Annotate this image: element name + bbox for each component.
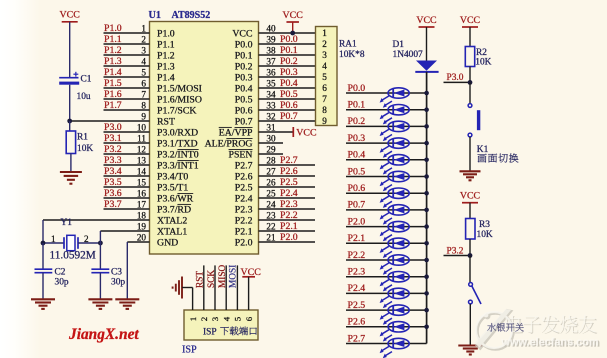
svg-text:P2.2: P2.2 [348, 250, 366, 261]
svg-text:C3: C3 [111, 268, 122, 278]
svg-text:P1.1: P1.1 [157, 39, 175, 50]
svg-text:9: 9 [322, 116, 327, 126]
LED P2.2 symbol [388, 255, 409, 265]
wire P2.7 to LED [346, 343, 427, 345]
svg-text:P2.3: P2.3 [235, 204, 253, 215]
svg-text:P2.4: P2.4 [235, 193, 253, 204]
U1 pin 22 stub and pin number [259, 230, 316, 232]
svg-text:www.elecfans.com: www.elecfans.com [501, 336, 599, 348]
svg-text:10K: 10K [77, 144, 93, 154]
ground symbol (K1) [460, 170, 481, 172]
svg-text:P0.6: P0.6 [280, 100, 298, 111]
svg-text:P2.1: P2.1 [348, 233, 366, 244]
svg-text:P3.5: P3.5 [104, 177, 122, 188]
wire crystal to XTAL1 node [78, 242, 100, 244]
LED P2.0 symbol [388, 221, 409, 231]
wire ISP ground to pin1 [182, 287, 193, 289]
wire C3 to ground [99, 273, 101, 299]
junction node bus row P2.2 [424, 258, 429, 263]
U1 pin 20 stub and pin number [127, 241, 149, 243]
wire P0.4 to LED [346, 159, 427, 161]
resistor R3 symbol [466, 219, 475, 240]
U1 pin 40 stub and pin number [259, 32, 316, 34]
svg-text:U1: U1 [149, 10, 161, 21]
wire ISP VCC stem [248, 277, 250, 310]
svg-text:P2.5: P2.5 [280, 177, 298, 188]
wire ISP pin5 [236, 265, 238, 310]
svg-text:P0.5: P0.5 [235, 94, 253, 105]
svg-text:P2.6: P2.6 [280, 166, 298, 177]
U1 pin 29 stub and pin number [259, 153, 284, 155]
U1 pin 14 stub and pin number [104, 175, 150, 177]
svg-text:P0.5: P0.5 [348, 166, 366, 177]
junction node bus row P2.1 [424, 241, 429, 246]
svg-text:P3.3/INT1: P3.3/INT1 [157, 160, 199, 171]
svg-text:P0.6: P0.6 [235, 105, 253, 116]
svg-text:32: 32 [266, 111, 276, 121]
svg-text:P0.2: P0.2 [235, 61, 253, 72]
svg-text:4: 4 [221, 316, 231, 321]
power VCC symbol (reset circuit) [62, 21, 78, 23]
IC U1 AT89S52 body [150, 22, 259, 255]
resistor R1 symbol [66, 131, 75, 154]
svg-text:P2.2: P2.2 [280, 210, 298, 221]
svg-text:K1: K1 [477, 145, 489, 155]
junction node P3.0/K1 [468, 80, 473, 85]
U1 pin 37 stub and pin number [259, 65, 316, 67]
LED P0.7 symbol [388, 205, 409, 215]
junction node bus row P0.4 [424, 158, 429, 163]
U1 pin 11 stub and pin number [104, 142, 150, 144]
wire C3 stem [99, 243, 101, 269]
U1 pin 15 stub and pin number [104, 186, 150, 188]
svg-text:P2.1: P2.1 [235, 226, 253, 237]
svg-text:P3.0/RXD: P3.0/RXD [157, 127, 198, 138]
svg-text:6: 6 [141, 78, 146, 88]
wire R1 to ground [70, 154, 72, 172]
LED P2.6 symbol [388, 322, 409, 332]
U1 pin 26 stub and pin number [259, 186, 316, 188]
svg-text:14: 14 [137, 166, 147, 176]
svg-text:34: 34 [266, 89, 276, 99]
wire P2.6 to LED [346, 326, 427, 328]
svg-text:10K: 10K [477, 230, 493, 240]
svg-text:6: 6 [244, 316, 254, 321]
svg-text:P0.3: P0.3 [348, 133, 366, 144]
U1 pin 30 stub and pin number [259, 142, 284, 144]
U1 pin 17 stub and pin number [104, 208, 150, 210]
U1 pin 32 stub and pin number [259, 120, 316, 122]
junction node RST/R1/C1 [67, 119, 72, 124]
svg-text:P1.6: P1.6 [104, 89, 122, 100]
svg-text:P3.2: P3.2 [104, 144, 122, 155]
svg-text:5: 5 [233, 316, 243, 321]
LED P0.5 symbol [388, 171, 409, 181]
svg-text:P1.2: P1.2 [104, 45, 122, 56]
svg-text:P0.1: P0.1 [235, 50, 253, 61]
svg-text:ALE/PROG: ALE/PROG [205, 138, 253, 149]
svg-text:22: 22 [266, 221, 276, 231]
wire R3 to P3.2 node [469, 239, 471, 256]
svg-text:26: 26 [266, 177, 276, 187]
svg-text:9: 9 [141, 111, 146, 121]
svg-text:8: 8 [141, 100, 146, 110]
svg-text:6: 6 [322, 83, 327, 93]
svg-text:P1.4: P1.4 [157, 72, 175, 83]
junction node bus row P0.7 [424, 208, 429, 213]
junction node bus row P2.6 [424, 325, 429, 330]
svg-text:P0.1: P0.1 [348, 100, 366, 111]
svg-text:15: 15 [137, 177, 147, 187]
wire net stub P3.2 [444, 255, 471, 257]
ground symbol (C3) [88, 298, 112, 300]
svg-text:10K: 10K [475, 58, 491, 68]
U1 pin 19 stub and pin number [100, 230, 149, 232]
ground symbol (C2) [31, 298, 55, 300]
svg-text:P3.5/T1: P3.5/T1 [157, 182, 188, 193]
svg-text:P0.4: P0.4 [280, 78, 298, 89]
power VCC symbol (EA/VPP pin, sideways) [292, 127, 294, 137]
wire P2.5 to LED [346, 309, 427, 311]
wire P2.0 to LED [346, 226, 427, 228]
svg-text:20: 20 [137, 232, 147, 242]
svg-text:P3.4/T0: P3.4/T0 [157, 171, 188, 182]
junction node bus row P0.1 [424, 107, 429, 112]
svg-text:P1.3: P1.3 [157, 61, 175, 72]
svg-text:P1.0: P1.0 [104, 23, 122, 34]
switch K2 (tilt switch) symbol [469, 283, 473, 287]
U1 pin 33 stub and pin number [259, 109, 316, 111]
svg-text:P0.7: P0.7 [348, 200, 366, 211]
U1 pin 25 stub and pin number [259, 197, 316, 199]
resistor R2 symbol [465, 47, 474, 67]
svg-text:C1: C1 [81, 75, 92, 85]
svg-text:38: 38 [266, 45, 276, 55]
svg-text:P2.7: P2.7 [235, 160, 253, 171]
resistor network RA1 body [316, 27, 338, 126]
U1 pin 21 stub and pin number [259, 241, 316, 243]
svg-text:P2.7: P2.7 [280, 155, 298, 166]
svg-text:XTAL2: XTAL2 [157, 215, 187, 226]
LED P0.0 symbol [388, 88, 409, 98]
svg-text:23: 23 [266, 210, 276, 220]
svg-text:P2.5: P2.5 [235, 182, 253, 193]
svg-text:C2: C2 [55, 268, 66, 278]
capacitor C3 symbol [91, 268, 109, 270]
svg-text:24: 24 [266, 199, 276, 209]
LED P2.4 symbol [388, 288, 409, 298]
svg-text:35: 35 [266, 78, 276, 88]
junction node bus row P0.6 [424, 191, 429, 196]
svg-text:P2.3: P2.3 [280, 199, 298, 210]
svg-text:30p: 30p [55, 278, 69, 288]
wire R2 to P3.0 node [469, 67, 471, 83]
svg-text:P0.6: P0.6 [348, 183, 366, 194]
ground symbol (ISP, rotated) [181, 277, 183, 299]
svg-text:Y1: Y1 [61, 218, 73, 228]
junction node bus row P2.5 [424, 308, 429, 313]
svg-text:JiangX.net: JiangX.net [68, 326, 139, 343]
svg-text:1: 1 [322, 28, 327, 38]
svg-text:R3: R3 [479, 220, 490, 230]
wire XTAL1 route [99, 231, 101, 243]
wire P2.4 to LED [346, 292, 427, 294]
svg-text:VCC: VCC [241, 267, 262, 278]
wire ISP pin4 (MOSI) [225, 265, 227, 310]
svg-text:GND: GND [157, 237, 178, 248]
svg-text:VCC: VCC [232, 28, 252, 39]
svg-text:1: 1 [141, 23, 146, 33]
svg-text:1: 1 [51, 234, 56, 244]
label 画面切换 (screen switch) [477, 154, 486, 163]
ground symbol (reset circuit) [60, 171, 82, 173]
svg-text:AT89S52: AT89S52 [172, 10, 211, 21]
U1 pin 18 stub and pin number [43, 219, 150, 221]
U1 pin 8 stub and pin number [104, 109, 150, 111]
svg-text:P0.3: P0.3 [235, 72, 253, 83]
svg-text:8: 8 [322, 105, 327, 115]
svg-text:RST: RST [195, 271, 205, 288]
svg-text:P3.1/TXD: P3.1/TXD [157, 138, 198, 149]
U1 pin 36 stub and pin number [259, 76, 316, 78]
wire P0.1 to LED [346, 109, 427, 111]
wire P2.1 to LED [346, 242, 427, 244]
U1 pin 7 stub and pin number [104, 98, 150, 100]
svg-text:XTAL1: XTAL1 [157, 226, 187, 237]
wire node to K2 [469, 256, 471, 283]
wire VCC to R3 [469, 203, 471, 219]
svg-text:RST: RST [157, 116, 175, 127]
U1 pin 39 stub and pin number [259, 43, 316, 45]
svg-text:VCC: VCC [460, 15, 481, 26]
svg-text:ISP: ISP [182, 344, 197, 355]
wire VCC to C1 [69, 22, 71, 77]
svg-text:1N4007: 1N4007 [393, 50, 424, 60]
svg-text:39: 39 [266, 34, 276, 44]
svg-text:33: 33 [266, 100, 276, 110]
svg-text:17: 17 [137, 199, 147, 209]
wire crystal row [43, 242, 64, 244]
svg-text:36: 36 [266, 67, 276, 77]
wire P0.7 to LED [346, 209, 427, 211]
U1 pin 23 stub and pin number [259, 219, 316, 221]
capacitor C2 symbol [35, 268, 53, 270]
svg-text:10K*8: 10K*8 [339, 50, 365, 60]
svg-text:P3.7: P3.7 [104, 199, 122, 210]
svg-text:P3.4: P3.4 [104, 166, 122, 177]
crystal Y1 symbol [63, 237, 65, 249]
junction node XTAL1/C3 [98, 241, 103, 246]
junction node bus row P0.0 [424, 91, 429, 96]
svg-text:P3.0: P3.0 [104, 122, 122, 133]
ground symbol (U1 GND pin) [115, 298, 139, 300]
svg-text:19: 19 [137, 221, 147, 231]
wire VCC to D1 anode [426, 27, 428, 61]
svg-text:VCC: VCC [296, 128, 317, 139]
svg-text:40: 40 [266, 23, 276, 33]
svg-text:4: 4 [322, 61, 327, 71]
U1 pin 5 stub and pin number [104, 76, 150, 78]
U1 pin 24 stub and pin number [259, 208, 316, 210]
junction node bus row P0.3 [424, 141, 429, 146]
svg-text:ISP: ISP [203, 328, 217, 338]
junction node P3.2/K2 [468, 253, 473, 258]
svg-text:VCC: VCC [416, 15, 437, 26]
wire P0.3 to LED [346, 142, 427, 144]
U1 pin 2 stub and pin number [104, 43, 150, 45]
wire C2 to ground [42, 273, 44, 299]
U1 pin 12 stub and pin number [104, 153, 150, 155]
wire node to R1 [69, 121, 71, 131]
svg-text:P3.7/RD: P3.7/RD [157, 204, 191, 215]
svg-text:P2.6: P2.6 [348, 317, 366, 328]
svg-text:EA/VPP: EA/VPP [219, 127, 253, 138]
U1 pin 4 stub and pin number [104, 65, 150, 67]
svg-text:16: 16 [137, 188, 147, 198]
wire P2.2 to LED [346, 259, 427, 261]
U1 pin 9 stub and pin number [70, 120, 150, 122]
svg-text:30p: 30p [111, 278, 125, 288]
svg-text:P0.4: P0.4 [348, 150, 366, 161]
U1 pin 1 stub and pin number [104, 32, 150, 34]
wire P0.2 to LED [346, 125, 427, 127]
svg-text:P1.2: P1.2 [157, 50, 175, 61]
svg-text:P3.6: P3.6 [104, 188, 122, 199]
LED P2.5 symbol [388, 305, 409, 315]
wire K2 to ground [469, 304, 471, 345]
svg-text:P0.3: P0.3 [280, 67, 298, 78]
svg-text:P1.0: P1.0 [157, 28, 175, 39]
svg-text:P0.4: P0.4 [235, 83, 253, 94]
LED P0.2 symbol [388, 121, 409, 131]
svg-text:10u: 10u [77, 92, 91, 102]
U1 pin 6 stub and pin number [104, 87, 150, 89]
svg-text:VCC: VCC [60, 10, 81, 21]
wire VCC stem to pin40 wire [292, 22, 294, 33]
svg-text:37: 37 [266, 56, 276, 66]
svg-text:21: 21 [266, 232, 276, 242]
wire LED anode bus [426, 72, 428, 344]
switch K1 (pushbutton) symbol [468, 104, 472, 108]
U1 pin 35 stub and pin number [259, 87, 316, 89]
svg-text:P1.5/MOSI: P1.5/MOSI [157, 83, 202, 94]
svg-text:P0.5: P0.5 [280, 89, 298, 100]
LED P0.1 symbol [388, 105, 409, 115]
connector ISP body [184, 310, 258, 340]
svg-text:MISO: MISO [218, 264, 228, 288]
svg-text:3: 3 [322, 50, 327, 60]
watermark elecfans logo and text [475, 309, 601, 351]
svg-text:P1.7: P1.7 [104, 100, 122, 111]
svg-text:P1.5: P1.5 [104, 78, 122, 89]
svg-text:12: 12 [137, 144, 147, 154]
U1 pin 34 stub and pin number [259, 98, 316, 100]
junction node bus row P2.0 [424, 224, 429, 229]
power VCC symbol (pin 40 rail) [286, 21, 299, 23]
svg-text:D1: D1 [393, 40, 405, 50]
junction node bus row P0.5 [424, 174, 429, 179]
svg-text:P1.6/MISO: P1.6/MISO [157, 94, 202, 105]
svg-text:P2.5: P2.5 [348, 300, 366, 311]
junction node bus row P0.2 [424, 124, 429, 129]
svg-text:2: 2 [199, 317, 209, 321]
svg-text:5: 5 [322, 72, 327, 82]
svg-text:P3.6/WR: P3.6/WR [157, 193, 194, 204]
svg-text:29: 29 [266, 144, 276, 154]
svg-text:P2.4: P2.4 [348, 283, 366, 294]
svg-text:7: 7 [141, 89, 146, 99]
label 水银开关 (tilt switch) [487, 323, 524, 331]
wire P0.0 to LED [346, 92, 427, 94]
svg-text:1: 1 [188, 317, 198, 321]
wire P0.6 to LED [346, 192, 427, 194]
wire XTAL2 route [42, 220, 44, 243]
wire K1 to ground [469, 137, 471, 171]
svg-text:2: 2 [141, 34, 146, 44]
svg-text:P2.4: P2.4 [280, 188, 298, 199]
svg-text:3: 3 [210, 316, 220, 321]
U1 pin 27 stub and pin number [259, 175, 316, 177]
svg-text:3: 3 [141, 45, 146, 55]
wire P0.5 to LED [346, 176, 427, 178]
power VCC symbol (R2) [462, 26, 478, 28]
svg-text:RA1: RA1 [339, 39, 357, 49]
wire VCC to R2 [469, 27, 471, 47]
wire ISP pin3 (MISO) [214, 265, 216, 310]
svg-text:5: 5 [141, 67, 146, 77]
wire net stub P3.0 [444, 81, 471, 83]
wire C1 to RST node [69, 85, 71, 121]
svg-text:P1.4: P1.4 [104, 67, 122, 78]
svg-text:P1.7/SCK: P1.7/SCK [157, 105, 196, 116]
U1 pin 16 stub and pin number [104, 197, 150, 199]
svg-text:P0.2: P0.2 [280, 56, 298, 67]
wire node to K1 [469, 82, 471, 103]
svg-text:P1.1: P1.1 [104, 34, 122, 45]
junction node XTAL2/C2 [41, 241, 46, 246]
junction node bus row P2.4 [424, 291, 429, 296]
wire ISP pin2 (SCK) [203, 265, 205, 310]
U1 pin 10 stub and pin number [104, 131, 150, 133]
svg-text:18: 18 [137, 210, 147, 220]
LED P0.6 symbol [388, 188, 409, 198]
svg-text:P0.7: P0.7 [235, 116, 253, 127]
svg-text:27: 27 [266, 166, 276, 176]
svg-text:11: 11 [137, 133, 146, 143]
wire GND pin route [126, 242, 128, 299]
svg-text:P0.1: P0.1 [280, 45, 298, 56]
svg-text:P3.1: P3.1 [104, 133, 122, 144]
wire C2 stem [42, 243, 44, 269]
U1 pin 38 stub and pin number [259, 54, 316, 56]
ground symbol (K2) [458, 344, 482, 346]
svg-text:P1.3: P1.3 [104, 56, 122, 67]
svg-text:P2.1: P2.1 [280, 221, 298, 232]
power VCC symbol (R3) [462, 202, 478, 204]
svg-text:P2.0: P2.0 [280, 232, 298, 243]
svg-text:2: 2 [322, 39, 327, 49]
svg-text:P0.0: P0.0 [235, 39, 253, 50]
LED P0.4 symbol [388, 155, 409, 165]
svg-text:P0.7: P0.7 [280, 111, 298, 122]
svg-text:P2.7: P2.7 [348, 333, 366, 344]
capacitor C1 symbol (electrolytic 10u) [59, 77, 78, 79]
svg-text:VCC: VCC [283, 10, 304, 21]
svg-text:MOSI: MOSI [228, 265, 238, 288]
svg-text:30: 30 [266, 133, 276, 143]
svg-text:SCK: SCK [207, 270, 217, 288]
svg-text:7: 7 [322, 94, 327, 104]
